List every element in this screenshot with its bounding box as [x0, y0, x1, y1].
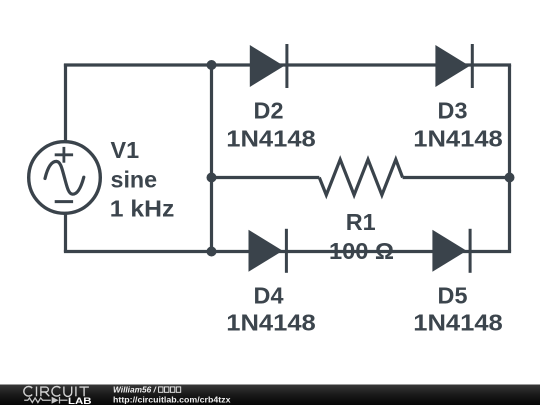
svg-text:D5: D5 — [438, 283, 468, 309]
diode D5 — [432, 229, 471, 273]
svg-text:sine: sine — [111, 167, 158, 193]
wire branch vertical (node A) — [210, 65, 213, 252]
svg-text:1N4148: 1N4148 — [226, 310, 316, 336]
wire right vertical — [508, 65, 511, 252]
diode D4 — [249, 229, 288, 273]
svg-text:1N4148: 1N4148 — [226, 126, 316, 152]
voltage source V1 circle — [29, 142, 101, 214]
wire middle rail right — [403, 176, 512, 179]
svg-text:D4: D4 — [254, 283, 284, 309]
svg-text:V1: V1 — [111, 137, 140, 163]
svg-text:William56 /: William56 / — [113, 384, 158, 394]
wire top rail — [64, 63, 511, 66]
svg-text:D2: D2 — [254, 97, 284, 123]
diode D2 — [250, 44, 289, 88]
junction node dot middle left — [207, 173, 217, 183]
junction node dot middle right — [505, 173, 515, 183]
wire V1 bottom lead — [64, 214, 67, 252]
svg-text:1N4148: 1N4148 — [413, 310, 503, 336]
wire middle rail left — [212, 176, 320, 179]
svg-text:100 Ω: 100 Ω — [329, 238, 394, 264]
junction node dot top — [207, 60, 217, 70]
svg-text:LAB: LAB — [68, 396, 92, 405]
svg-text:1 kHz: 1 kHz — [110, 196, 175, 222]
svg-text:D3: D3 — [438, 97, 468, 123]
V1 plus sign — [55, 147, 73, 163]
wire V1 top lead — [64, 64, 67, 141]
wire bottom rail — [64, 250, 511, 253]
footer bar — [0, 385, 540, 405]
junction node dot bottom — [207, 247, 217, 257]
svg-text:1N4148: 1N4148 — [413, 126, 503, 152]
footer credit tofu boxes — [159, 387, 181, 392]
resistor R1 — [319, 160, 402, 196]
footer logo resistor-diode glyph — [24, 397, 67, 404]
svg-text:R1: R1 — [346, 209, 376, 235]
V1 minus sign — [55, 200, 73, 203]
V1 sine waveform — [45, 161, 84, 194]
diode D3 — [435, 44, 473, 88]
svg-text:http://circuitlab.com/crb4tzx: http://circuitlab.com/crb4tzx — [113, 394, 231, 404]
footer logo CIRCUIT — [24, 386, 89, 396]
